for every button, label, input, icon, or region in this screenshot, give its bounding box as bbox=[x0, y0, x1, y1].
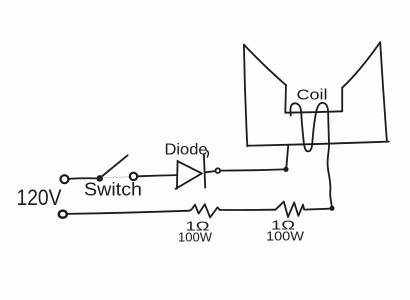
Diode label tail flourish bbox=[207, 151, 209, 158]
svg-text:100W: 100W bbox=[178, 231, 212, 245]
wire R1 to R2 bbox=[220, 209, 276, 211]
svg-text:Switch: Switch bbox=[84, 180, 142, 200]
faint closed-position wire bbox=[103, 177, 130, 178]
resistor R2 zigzag bbox=[276, 202, 305, 217]
svg-text:Diode: Diode bbox=[165, 142, 208, 159]
horn right diagonal bbox=[342, 42, 380, 88]
bottom wire to resistor R1 bbox=[67, 211, 189, 214]
switch lever bbox=[101, 155, 128, 177]
horn left diagonal bbox=[244, 45, 286, 86]
horn bottom edge bbox=[247, 142, 388, 146]
horn notch bottom bbox=[285, 111, 342, 112]
horn right edge bbox=[380, 42, 387, 141]
svg-text:100W: 100W bbox=[266, 230, 304, 244]
wire junction up to horn bbox=[286, 145, 288, 167]
diode D1 triangle bbox=[176, 161, 202, 189]
wire cathode to node circle bbox=[206, 171, 216, 172]
horn left edge bbox=[244, 45, 247, 147]
horn left notch wall bbox=[284, 85, 287, 113]
wire diode to junction bbox=[220, 169, 283, 170]
wire source to switch pivot bbox=[68, 177, 96, 180]
wire switch to diode bbox=[137, 175, 177, 176]
wavy wire coil down to resistor node bbox=[328, 144, 332, 208]
horn right notch wall bbox=[341, 88, 343, 112]
terminal circle top-left bbox=[61, 175, 69, 183]
coil end dot bbox=[330, 206, 335, 211]
switch pivot junction dot bbox=[96, 175, 103, 182]
node circle after diode bbox=[216, 168, 221, 173]
svg-text:120V: 120V bbox=[17, 185, 62, 210]
resistor R1 zigzag bbox=[190, 204, 220, 217]
terminal circle switch right bbox=[130, 173, 137, 180]
junction dot bbox=[283, 167, 288, 172]
svg-text:Coil: Coil bbox=[297, 88, 328, 104]
wire R2 to coil node bbox=[304, 208, 330, 211]
coil winding bbox=[290, 103, 329, 152]
terminal circle bottom-left bbox=[59, 211, 67, 218]
diode cathode bar bbox=[204, 154, 205, 187]
